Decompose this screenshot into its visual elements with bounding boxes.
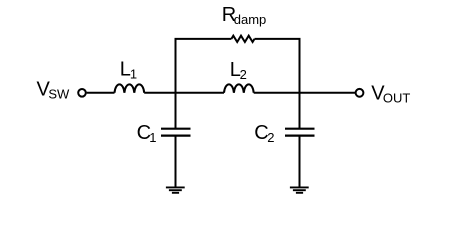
capacitor C1 — [161, 129, 191, 136]
ground (right) — [290, 187, 309, 192]
wire: C1 to ground — [175, 136, 177, 188]
svg-text:L2: L2 — [230, 59, 247, 82]
wire: R_damp right to node B — [255, 39, 300, 129]
resistor R_damp — [231, 36, 254, 42]
svg-text:VSW: VSW — [37, 78, 71, 101]
wire: C2 to ground — [299, 136, 301, 188]
svg-text:Rdamp: Rdamp — [222, 4, 266, 27]
output terminal VOUT — [356, 89, 364, 97]
svg-text:C1: C1 — [137, 122, 157, 145]
ground (left) — [166, 187, 185, 192]
input terminal VSW — [78, 89, 86, 97]
svg-text:L1: L1 — [120, 58, 137, 81]
capacitor C2 — [285, 129, 315, 136]
svg-text:C2: C2 — [254, 122, 274, 145]
wire: L1 to L2 through node A — [144, 92, 224, 94]
inductor L1 — [115, 84, 145, 92]
wire: VSW terminal to L1 — [87, 92, 115, 94]
wire: node A up and right to R_damp — [176, 39, 232, 129]
inductor L2 — [224, 84, 254, 92]
svg-text:VOUT: VOUT — [371, 82, 410, 105]
wire: L2 to VOUT terminal through node B — [254, 92, 355, 94]
